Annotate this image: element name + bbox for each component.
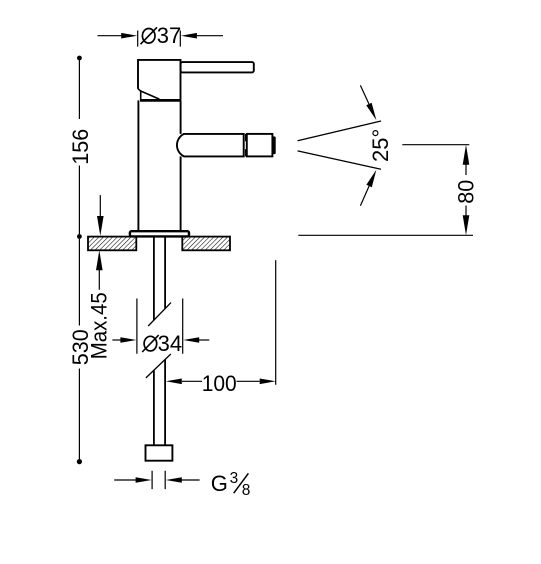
pipe lower xyxy=(154,359,165,445)
handle step xyxy=(138,89,141,91)
dim D34 ticks xyxy=(137,299,183,354)
svg-text:3: 3 xyxy=(230,470,239,487)
cone upper arrow xyxy=(360,85,369,104)
dim chain middle dot xyxy=(77,234,82,239)
dim 156 line xyxy=(78,60,80,234)
svg-text:25°: 25° xyxy=(368,129,393,162)
spout xyxy=(177,134,244,157)
dim 530 line xyxy=(78,239,80,459)
dim 80 upper ref line xyxy=(402,144,469,146)
dim D37 right arrow xyxy=(196,35,224,37)
faucet body xyxy=(138,100,180,231)
dim D34 label xyxy=(142,331,182,356)
dim D37 label xyxy=(141,23,182,48)
dim D37 left arrow xyxy=(98,35,123,37)
svg-text:100: 100 xyxy=(202,371,237,396)
spray cone upper line xyxy=(298,121,381,141)
flange xyxy=(130,231,189,236)
svg-text:80: 80 xyxy=(453,180,478,204)
handle inner vertical xyxy=(140,91,142,100)
svg-text:156: 156 xyxy=(68,129,93,165)
dim G38 label xyxy=(211,470,251,499)
dim chain bottom dot xyxy=(77,459,82,464)
dim 100 line xyxy=(182,380,260,382)
dim Max45 down arrow xyxy=(99,195,101,216)
dim G38 ticks xyxy=(152,471,165,489)
handle diagonal xyxy=(141,91,160,99)
dim 100 ext line xyxy=(275,260,277,385)
counter right xyxy=(182,237,230,251)
counter left xyxy=(88,237,136,251)
dim 156 chain top dot xyxy=(77,56,82,61)
dim D37 ticks xyxy=(138,31,181,47)
spray cone lower line xyxy=(298,151,381,169)
svg-text:8: 8 xyxy=(242,482,251,499)
aerator tip xyxy=(273,136,276,154)
break upper xyxy=(148,303,171,326)
dim D34 right arrow xyxy=(198,339,209,341)
svg-text:G: G xyxy=(211,471,228,496)
svg-text:37: 37 xyxy=(157,23,181,48)
pipe upper xyxy=(154,236,165,320)
dim 100 right arrow xyxy=(260,379,276,385)
spout joint xyxy=(245,134,247,156)
dim Max45 up arrow xyxy=(96,250,103,270)
dim 80 down arrow xyxy=(465,206,467,216)
break lower xyxy=(146,354,171,378)
dim G38 left arrow xyxy=(114,479,136,481)
cone lower arrow xyxy=(360,186,369,206)
svg-text:Max.45: Max.45 xyxy=(87,292,112,359)
end fitting xyxy=(146,445,173,460)
svg-text:34: 34 xyxy=(158,331,182,356)
handle bottom bold line xyxy=(140,99,181,102)
dim G38 right arrow xyxy=(181,479,200,481)
dim 100 left arrow xyxy=(166,379,182,385)
counter level ref line xyxy=(298,234,473,236)
dim D34 left arrow xyxy=(112,339,122,341)
handle block xyxy=(138,60,181,100)
lever xyxy=(181,62,254,72)
aerator xyxy=(247,134,273,157)
dim 80 up arrow xyxy=(463,145,470,165)
